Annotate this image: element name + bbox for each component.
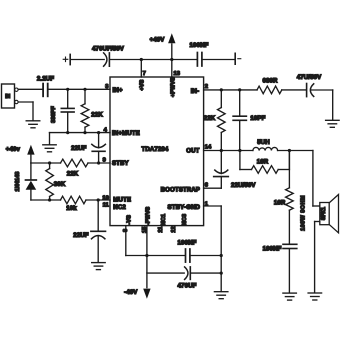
capacitor C9 22U/50V bootstrap bbox=[220, 151, 222, 174]
wire pin1 stby-gnd bbox=[204, 205, 222, 207]
node 22K top bbox=[83, 88, 86, 91]
diode D1 1N4148 bbox=[30, 163, 32, 179]
resistor R8 10R zobel bbox=[288, 151, 290, 188]
svg-text:+40v: +40v bbox=[6, 146, 21, 153]
ground main bbox=[214, 291, 228, 293]
terminal right of supply bbox=[234, 53, 236, 64]
svg-text:10PF: 10PF bbox=[250, 115, 265, 122]
svg-text:12: 12 bbox=[171, 226, 177, 232]
svg-text:7: 7 bbox=[143, 71, 146, 77]
resistor R4 10k bbox=[61, 196, 87, 204]
svg-text:+VS: +VS bbox=[140, 79, 146, 90]
svg-text:6: 6 bbox=[205, 182, 209, 188]
svg-text:11: 11 bbox=[103, 203, 110, 209]
wire pin2 IN- feedback bbox=[204, 89, 257, 91]
speaker SPK1 bbox=[320, 203, 329, 225]
svg-text:2: 2 bbox=[205, 84, 208, 90]
svg-text:470UF: 470UF bbox=[178, 282, 197, 289]
ground speaker bbox=[308, 292, 322, 294]
resistor R5 680R bbox=[257, 86, 282, 94]
svg-text:STBY: STBY bbox=[112, 160, 129, 167]
resistor R6 22K feedback bbox=[220, 90, 222, 108]
ground zobel bbox=[283, 292, 297, 294]
svg-text:IN+MUTE: IN+MUTE bbox=[112, 130, 140, 137]
svg-text:NC2: NC2 bbox=[113, 204, 126, 211]
svg-text:10k: 10k bbox=[66, 205, 77, 212]
svg-text:22K: 22K bbox=[91, 112, 103, 119]
svg-text:+PWVS: +PWVS bbox=[170, 77, 176, 97]
svg-text:IN-: IN- bbox=[191, 88, 199, 95]
capacitor C7 47U/50V bbox=[306, 84, 308, 97]
capacitor C5 22UF stby bbox=[98, 133, 100, 148]
node 330PF top bbox=[66, 88, 69, 91]
svg-text:-40V: -40V bbox=[124, 289, 138, 296]
node fb 10PF bbox=[238, 88, 241, 91]
wire out to speaker bbox=[312, 151, 314, 207]
svg-text:NC3: NC3 bbox=[182, 214, 188, 225]
svg-text:-VS: -VS bbox=[126, 215, 132, 225]
svg-text:100NF: 100NF bbox=[263, 246, 282, 253]
svg-text:680R: 680R bbox=[262, 77, 278, 84]
wire stby rail bbox=[31, 162, 61, 164]
svg-text:13: 13 bbox=[174, 71, 181, 77]
svg-text:5UH: 5UH bbox=[257, 139, 270, 146]
node pin7 junction bbox=[140, 58, 143, 61]
svg-text:30K: 30K bbox=[54, 181, 66, 188]
svg-text:22K: 22K bbox=[67, 170, 79, 177]
svg-text:SPK1: SPK1 bbox=[321, 207, 327, 220]
svg-text:100NF: 100NF bbox=[190, 42, 209, 49]
wire pin4 signal-ground rail bbox=[50, 132, 111, 134]
svg-text:10R: 10R bbox=[274, 200, 286, 207]
capacitor C6 22UF mute bbox=[97, 200, 99, 231]
svg-text:100NF: 100NF bbox=[178, 240, 197, 247]
svg-text:1: 1 bbox=[205, 202, 209, 208]
wire pin 13 stub bbox=[171, 60, 173, 78]
svg-text:330PF: 330PF bbox=[51, 106, 57, 123]
capacitor C12 100NF zobel bbox=[283, 243, 297, 245]
svg-text:2.2UF: 2.2UF bbox=[37, 76, 54, 83]
svg-text:22U/50V: 22U/50V bbox=[231, 182, 256, 189]
resistor R3 30K bbox=[49, 163, 51, 169]
resistor R7 10R parallel bbox=[239, 151, 241, 170]
capacitor C2 100NF top bbox=[196, 53, 198, 67]
node pin13 junction bbox=[170, 58, 173, 61]
svg-text:+40V: +40V bbox=[150, 37, 166, 44]
svg-text:-PWVS: -PWVS bbox=[145, 206, 151, 225]
svg-text:470UF/50V: 470UF/50V bbox=[92, 45, 125, 52]
wire mute rail bbox=[31, 199, 61, 201]
node fb 22K bbox=[220, 88, 223, 91]
svg-text:47U/50V: 47U/50V bbox=[297, 74, 322, 81]
capacitor C10 100NF bottom bbox=[185, 249, 187, 262]
svg-text:10R: 10R bbox=[257, 158, 269, 165]
wire jack ground bbox=[18, 101, 33, 103]
svg-text:STBY-GND: STBY-GND bbox=[168, 204, 201, 211]
capacitor C8 10PF bbox=[239, 90, 241, 116]
svg-text:22UF: 22UF bbox=[73, 232, 89, 239]
svg-text:1N4148: 1N4148 bbox=[15, 172, 21, 192]
wire top +V rail bbox=[71, 59, 105, 61]
svg-text:11: 11 bbox=[158, 227, 164, 233]
resistor R1 22K input bbox=[84, 89, 86, 104]
svg-text:22K: 22K bbox=[204, 115, 216, 122]
ground signal rail bbox=[43, 144, 56, 146]
wire pin14 OUT bbox=[204, 150, 253, 152]
input jack J1 bbox=[2, 84, 15, 108]
capacitor C4 330PF bbox=[67, 89, 69, 108]
svg-text:BOOTSTRAP: BOOTSTRAP bbox=[161, 187, 200, 194]
ground mute cap bbox=[92, 262, 106, 264]
svg-text:OUT: OUT bbox=[186, 148, 199, 155]
ground jack bbox=[26, 120, 40, 122]
svg-text:IN: IN bbox=[5, 94, 10, 100]
power -40V arrow bbox=[143, 289, 150, 299]
svg-text:MUTE: MUTE bbox=[113, 197, 131, 204]
op-amp U1 TDA7294 body bbox=[110, 77, 204, 226]
ground feedback bbox=[326, 119, 340, 121]
capacitor C3 2.2UF bbox=[42, 84, 44, 97]
inductor L1 5UH bbox=[253, 147, 278, 150]
wire pin8 -VS bbox=[125, 226, 127, 256]
resistor R2 22K stby bbox=[61, 159, 89, 167]
svg-text:TDA7294: TDA7294 bbox=[142, 146, 169, 153]
terminal + of supply bbox=[63, 57, 68, 62]
wire pin15 -PWVS bbox=[146, 226, 148, 288]
wire jack to C3 bbox=[18, 88, 42, 90]
svg-text:NC1: NC1 bbox=[161, 214, 167, 225]
svg-text:100W 8OHM: 100W 8OHM bbox=[301, 195, 307, 231]
svg-text:IN+: IN+ bbox=[113, 87, 123, 94]
capacitor C1 470UF/50V bbox=[104, 53, 107, 66]
wire pin 7 stub bbox=[140, 60, 142, 78]
svg-text:14: 14 bbox=[205, 145, 212, 151]
wire C3 to pin 3 bbox=[48, 88, 110, 90]
capacitor C11 470UF bottom bbox=[185, 267, 188, 280]
svg-text:22UF: 22UF bbox=[71, 145, 87, 152]
power +40V arrow bbox=[171, 44, 173, 60]
